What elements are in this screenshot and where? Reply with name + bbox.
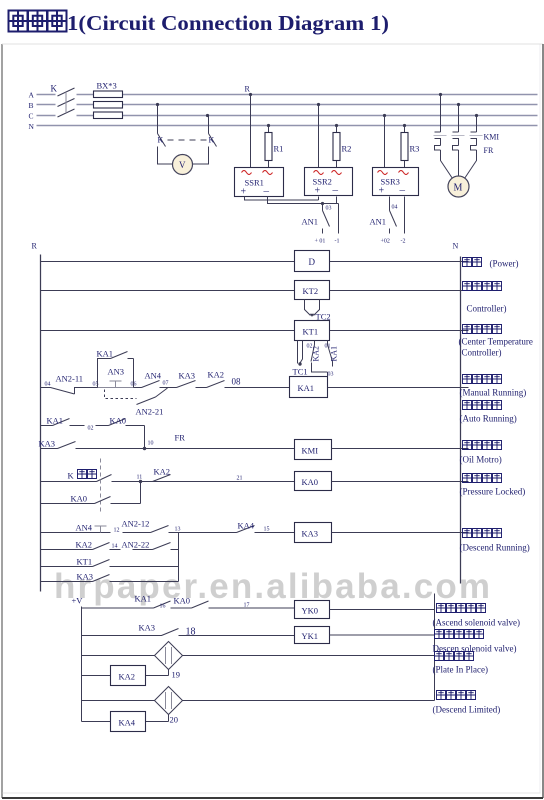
coil KA0 xyxy=(295,472,332,491)
phase line A xyxy=(37,94,538,96)
thermocouple TC1 wires xyxy=(298,341,303,364)
svg-text:–: – xyxy=(399,184,406,196)
svg-text:+: + xyxy=(379,186,385,197)
wire voltmeter left drop xyxy=(157,105,159,134)
svg-text:KA4: KA4 xyxy=(238,521,255,531)
svg-text:KA1: KA1 xyxy=(330,346,339,362)
svg-text:–: – xyxy=(332,184,339,196)
压力 pseudo CJK xyxy=(78,470,97,479)
svg-text:18: 18 xyxy=(186,627,196,638)
svg-text:02: 02 xyxy=(307,344,313,350)
svg-text:19: 19 xyxy=(172,670,181,680)
contact KA2 (rotated) xyxy=(311,341,315,362)
wire terminal -1 xyxy=(338,204,340,234)
switch K (3-pole) xyxy=(51,84,75,118)
linkage dashed AN2 xyxy=(105,390,137,399)
contact KA2 (rung 4) xyxy=(207,381,246,388)
wire SSR3 input xyxy=(384,116,386,168)
rung 5 (oil motor) contact KA3 xyxy=(41,442,295,449)
branch KA2 + AN2-22 xyxy=(41,543,179,550)
wire terminal -2 xyxy=(404,197,406,234)
rail R (left) xyxy=(40,255,42,592)
svg-text:C: C xyxy=(29,112,34,121)
SSR2 box xyxy=(305,168,353,196)
contact KA3 (rung 4) xyxy=(168,381,207,388)
node R1 top on line N xyxy=(267,124,270,127)
svg-text:12: 12 xyxy=(114,528,120,534)
wire SSR1 input xyxy=(250,95,252,168)
rung B6 coil KA4 xyxy=(82,721,169,723)
svg-text:R: R xyxy=(32,242,38,251)
rung 4 wire to coil xyxy=(246,387,469,389)
svg-text:B: B xyxy=(29,101,34,110)
svg-text:K: K xyxy=(51,84,58,94)
svg-text:KA3: KA3 xyxy=(139,623,156,633)
title CJK 电路图 xyxy=(9,11,67,32)
svg-text:+: + xyxy=(315,186,321,197)
svg-text:KA3: KA3 xyxy=(77,572,94,582)
svg-text:KA0: KA0 xyxy=(110,416,127,426)
svg-text:10: 10 xyxy=(148,441,154,447)
svg-text:(Plate In Place): (Plate In Place) xyxy=(433,665,488,675)
svg-text:KA2: KA2 xyxy=(154,467,171,477)
svg-text:KA2: KA2 xyxy=(208,370,225,380)
svg-text:hrpaper.en.alibaba.com: hrpaper.en.alibaba.com xyxy=(54,567,490,606)
svg-text:AN2-11: AN2-11 xyxy=(56,374,84,384)
wire voltmeter right drop xyxy=(208,116,210,134)
svg-text:N: N xyxy=(453,242,459,251)
svg-text:08: 08 xyxy=(232,377,242,387)
svg-text:KA1: KA1 xyxy=(97,349,114,359)
svg-text:SSR1: SSR1 xyxy=(245,178,264,188)
sensor diamond 2 xyxy=(155,687,183,715)
node motor phase B xyxy=(457,103,460,106)
wire SSR1 output bus lower xyxy=(268,197,339,204)
contact AN4 xyxy=(134,381,168,388)
rung B2 wire to bus xyxy=(330,634,435,636)
motor M xyxy=(448,176,469,197)
SSR1 box xyxy=(235,168,284,197)
svg-text:03: 03 xyxy=(328,372,334,378)
svg-text:KT1: KT1 xyxy=(77,557,93,567)
rung B2 contact KA3 xyxy=(82,629,295,636)
rung B1 contact KA0 xyxy=(192,601,295,608)
svg-text:1(Circuit Connection Diagram 1: 1(Circuit Connection Diagram 1) xyxy=(67,11,389,35)
branch KA1/KA0 (seal of KMI rung) xyxy=(41,419,85,426)
svg-text:KMI: KMI xyxy=(302,446,319,456)
svg-text:R: R xyxy=(245,85,251,94)
svg-text:(Descend Running): (Descend Running) xyxy=(460,543,530,553)
wire to voltmeter xyxy=(158,147,209,165)
node on line C (SSR3 tap) xyxy=(383,114,386,117)
node 10 xyxy=(143,447,146,450)
resistor R1 xyxy=(265,133,272,161)
svg-text:KA0: KA0 xyxy=(71,494,88,504)
svg-text:16: 16 xyxy=(160,604,166,610)
SSR3 box xyxy=(373,168,419,196)
thermocouple TC2 xyxy=(305,300,320,316)
svg-text:KA4: KA4 xyxy=(119,718,136,728)
svg-text:V: V xyxy=(179,160,186,170)
bus +V left xyxy=(81,607,83,722)
svg-text:(Descend Limited): (Descend Limited) xyxy=(433,705,501,715)
rung 1 wire xyxy=(41,261,469,263)
svg-text:AN2-12: AN2-12 xyxy=(122,519,150,529)
rung 5 wire to N xyxy=(332,448,469,450)
sensor diamond 1 xyxy=(155,642,183,670)
right label rung5 自动启动 (Auto Running) xyxy=(463,401,502,410)
rung B4 coil KA2 xyxy=(82,675,169,677)
svg-text:AN4: AN4 xyxy=(145,371,162,381)
svg-text:(Ascend solenoid valve): (Ascend solenoid valve) xyxy=(433,618,520,628)
contact KA4 xyxy=(179,526,295,533)
svg-text:AN1: AN1 xyxy=(302,217,319,227)
contact KA2 (rung 6) xyxy=(153,475,171,482)
right label B2 下降电磁阀 Descen solenoid valve) xyxy=(435,630,484,639)
svg-text:+: + xyxy=(241,187,247,198)
right label B3 台板到位 (Plate In Place) xyxy=(435,652,474,661)
mechanical link dashed xyxy=(100,459,102,515)
svg-text:YK1: YK1 xyxy=(302,631,319,641)
svg-text:-1: -1 xyxy=(335,239,340,245)
rung 6 (pressure) contact K压力 xyxy=(41,475,295,482)
contact K (voltmeter left) xyxy=(158,134,166,147)
svg-text:11: 11 xyxy=(137,475,143,481)
wires motor converge xyxy=(441,150,477,179)
vertical bus 13 xyxy=(178,533,180,582)
rung B5 wire xyxy=(82,700,435,702)
svg-text:KA2: KA2 xyxy=(312,346,321,362)
contact KA1 (seal-in branch) xyxy=(98,352,134,388)
right label rung2 四周温控 Controller) xyxy=(463,282,502,291)
svg-text:01: 01 xyxy=(325,344,331,350)
branch KA3 xyxy=(41,575,179,582)
svg-text:+V: +V xyxy=(72,596,84,606)
svg-text:YK0: YK0 xyxy=(302,606,319,616)
svg-text:20: 20 xyxy=(170,715,179,725)
svg-text:AN4: AN4 xyxy=(76,523,93,533)
right label rung3 中间温控 (Center Temperature Controller) xyxy=(463,325,502,334)
svg-text:FR: FR xyxy=(484,146,494,155)
coil KT2 xyxy=(295,281,330,300)
svg-text:(Center Temperature: (Center Temperature xyxy=(459,337,533,347)
node 20 xyxy=(168,715,170,722)
coil KMI xyxy=(295,440,332,460)
branch KA0 (pressure seal) xyxy=(41,482,141,504)
svg-text:(Power): (Power) xyxy=(490,259,519,269)
right label B1 上升电磁阀 (Ascend solenoid valve) xyxy=(437,604,486,613)
svg-text:KA2: KA2 xyxy=(76,540,93,550)
svg-text:KA1: KA1 xyxy=(135,594,152,604)
svg-text:04: 04 xyxy=(392,205,398,211)
coil YK1 xyxy=(295,627,330,644)
node 19 xyxy=(168,670,170,676)
coil YK0 xyxy=(295,601,330,619)
rung B1 contact KA1 xyxy=(82,601,192,608)
svg-text:KMI: KMI xyxy=(484,133,500,142)
contact K (voltmeter right) xyxy=(209,134,217,147)
svg-text:AN2-22: AN2-22 xyxy=(122,540,150,550)
pushbutton AN3 xyxy=(98,381,134,388)
svg-text:KA3: KA3 xyxy=(179,371,196,381)
svg-text:AN2-21: AN2-21 xyxy=(136,407,164,417)
svg-text:KT2: KT2 xyxy=(303,286,319,296)
svg-text:K: K xyxy=(158,136,164,145)
page frame xyxy=(1,44,3,798)
resistor R3 xyxy=(401,133,408,161)
coil D xyxy=(295,251,330,272)
svg-text:K: K xyxy=(68,471,75,481)
right label rung4 手动启动 (Manual Running) xyxy=(463,375,502,384)
coil KT1 xyxy=(295,321,330,341)
node on line C (voltmeter tap) xyxy=(206,114,209,117)
right label B5 下降限位 (Descend Limited) xyxy=(437,691,476,700)
svg-text:–: – xyxy=(263,185,270,197)
right label rung8 下降启动 (Descend Running) xyxy=(463,529,502,538)
node R3 top on line N xyxy=(403,124,406,127)
wire R3 leads xyxy=(404,126,406,168)
svg-text:KA3: KA3 xyxy=(302,529,319,539)
wire 03 link to KA1 coil xyxy=(312,362,333,377)
svg-text:KA1: KA1 xyxy=(298,383,315,393)
svg-text:+ 01: + 01 xyxy=(315,239,326,245)
contact AN2-21 xyxy=(137,388,168,405)
rung 7 (descend) pushbutton AN4 xyxy=(41,532,111,534)
svg-text:21: 21 xyxy=(237,476,243,482)
node R2 top on line N xyxy=(335,124,338,127)
voltmeter V xyxy=(173,155,193,175)
svg-text:M: M xyxy=(454,183,463,194)
svg-text:Controller): Controller) xyxy=(462,348,502,358)
coil KA3 xyxy=(295,523,332,543)
pushbutton AN1 (right) xyxy=(390,197,397,234)
svg-text:KA3: KA3 xyxy=(39,439,56,449)
node 03 xyxy=(321,202,324,205)
svg-text:-2: -2 xyxy=(401,239,406,245)
svg-text:17: 17 xyxy=(244,603,250,609)
bus right (bottom section) xyxy=(434,594,436,701)
svg-text:R1: R1 xyxy=(274,144,284,154)
svg-text:BX*3: BX*3 xyxy=(97,81,117,91)
contact AN2-12 xyxy=(123,526,179,533)
coil KA1 xyxy=(290,377,328,398)
node motor phase A xyxy=(439,93,442,96)
contact KA1 (rotated) xyxy=(328,341,333,362)
wires motor drops xyxy=(441,95,477,133)
rung 6 wire to N xyxy=(332,481,469,483)
wire R1 leads xyxy=(268,126,270,168)
branch KT1 xyxy=(41,560,179,567)
svg-text:N: N xyxy=(29,122,35,131)
rung B1 wire to bus xyxy=(330,609,435,611)
rung 7 wire to N xyxy=(332,532,469,534)
phase line B xyxy=(37,104,538,106)
svg-text:AN1: AN1 xyxy=(370,217,387,227)
svg-text:(Manual Running): (Manual Running) xyxy=(460,388,527,398)
fuse group BX*3 xyxy=(94,81,123,119)
svg-text:Descen solenoid valve): Descen solenoid valve) xyxy=(433,644,517,654)
neutral line N xyxy=(37,125,538,127)
svg-text:KA1: KA1 xyxy=(47,416,64,426)
contact KA0 (branch) xyxy=(96,419,145,449)
phase line C xyxy=(37,115,538,117)
resistor R2 xyxy=(333,133,340,161)
wire R2 leads xyxy=(336,126,338,168)
svg-text:TC1: TC1 xyxy=(293,367,308,377)
right label rung7 压力自锁 (Pressure Locked) xyxy=(463,474,502,483)
breaker AN2-11 xyxy=(51,388,98,395)
svg-text:02: 02 xyxy=(88,426,94,432)
svg-text:KA0: KA0 xyxy=(302,477,319,487)
pushbutton AN1 (left) xyxy=(323,204,330,234)
thermal overload FR xyxy=(435,146,494,156)
svg-text:(Auto Running): (Auto Running) xyxy=(460,414,517,424)
svg-text:KA0: KA0 xyxy=(174,596,191,606)
svg-text:K: K xyxy=(209,136,215,145)
dashed link between K contacts xyxy=(168,139,207,141)
svg-text:14: 14 xyxy=(112,544,118,550)
svg-text:13: 13 xyxy=(175,527,181,533)
rung 3 wire xyxy=(41,330,469,332)
svg-text:KA2: KA2 xyxy=(119,672,136,682)
svg-text:03: 03 xyxy=(326,206,332,212)
svg-text:A: A xyxy=(29,91,35,100)
svg-text:R3: R3 xyxy=(410,144,420,154)
svg-text:+02: +02 xyxy=(381,239,390,245)
svg-text:AN3: AN3 xyxy=(108,367,125,377)
contactor KMI main contacts xyxy=(435,132,477,146)
rung B3 wire xyxy=(82,655,435,657)
right label rung1 电源 (Power) xyxy=(463,258,482,267)
svg-text:07: 07 xyxy=(163,381,169,387)
wire SSR1 output bus upper xyxy=(245,197,319,201)
svg-text:KT1: KT1 xyxy=(303,327,319,337)
rung 2 wire xyxy=(41,290,469,292)
svg-text:Controller): Controller) xyxy=(467,304,507,314)
svg-text:04: 04 xyxy=(45,382,51,388)
svg-text:R2: R2 xyxy=(342,144,352,154)
svg-text:D: D xyxy=(309,257,316,267)
rail N (right) xyxy=(460,257,462,584)
node motor phase C xyxy=(475,114,478,117)
svg-text:(Oil Motro): (Oil Motro) xyxy=(460,455,502,465)
node on line B (SSR2 tap) xyxy=(317,103,320,106)
svg-text:15: 15 xyxy=(264,527,270,533)
svg-text:FR: FR xyxy=(175,433,186,443)
wire SSR2 input xyxy=(318,105,320,168)
node R on line A xyxy=(249,93,252,96)
right label rung6 油泵马达 (Oil Motro) xyxy=(463,441,502,450)
rung 4 start (manual) xyxy=(41,387,51,389)
node on line B (voltmeter tap) xyxy=(156,103,159,106)
svg-text:(Pressure Locked): (Pressure Locked) xyxy=(460,487,526,497)
